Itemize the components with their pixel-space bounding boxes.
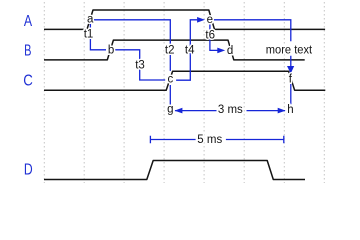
svg-text:B: B xyxy=(24,42,31,59)
gridline 8 xyxy=(323,2,325,183)
gridline 4 xyxy=(163,2,165,183)
svg-text:more text: more text xyxy=(266,45,313,57)
wire e right then down to f and h xyxy=(214,20,291,105)
3 ms measure line xyxy=(175,110,285,112)
svg-text:e: e xyxy=(207,14,213,26)
svg-text:a: a xyxy=(87,13,94,25)
signal A waveform xyxy=(44,10,325,29)
arrowhead into d xyxy=(217,48,225,54)
svg-text:c: c xyxy=(168,73,174,85)
gridline 6 xyxy=(243,2,245,183)
svg-text:t4: t4 xyxy=(185,44,195,56)
svg-text:h: h xyxy=(287,104,293,116)
5 ms measure line with end ticks xyxy=(150,136,283,143)
wire e down through t6 to d xyxy=(210,25,218,51)
svg-text:t1: t1 xyxy=(84,28,94,40)
svg-text:A: A xyxy=(24,13,32,30)
svg-text:C: C xyxy=(23,72,33,89)
wire b through t3 to c xyxy=(115,50,166,80)
signal D waveform xyxy=(44,161,305,180)
svg-text:t2: t2 xyxy=(165,44,175,56)
svg-text:D: D xyxy=(24,162,33,179)
arrowhead 3 ms left xyxy=(175,108,183,114)
arrowhead 3 ms right xyxy=(278,108,286,114)
svg-text:t3: t3 xyxy=(135,60,145,72)
svg-text:b: b xyxy=(108,44,114,56)
signal C waveform xyxy=(44,71,325,90)
gridline 1 xyxy=(43,2,45,183)
wire c down to g xyxy=(169,85,171,105)
gridline 5 xyxy=(203,2,205,183)
arrowhead into e xyxy=(197,17,205,23)
gridline 7 xyxy=(283,2,285,183)
svg-text:5 ms: 5 ms xyxy=(197,134,222,146)
svg-text:g: g xyxy=(167,104,173,116)
gridline 2 xyxy=(83,2,85,183)
svg-text:3 ms: 3 ms xyxy=(218,104,243,116)
gridline 3 xyxy=(123,2,125,183)
wire a to t2 vertical down to c xyxy=(94,20,171,71)
wire c through t4 up to e xyxy=(176,20,197,80)
svg-text:d: d xyxy=(227,45,233,57)
signal B waveform xyxy=(44,40,305,60)
svg-text:t6: t6 xyxy=(205,29,215,41)
wire a down through t1 to b xyxy=(90,24,106,50)
arrowhead down into f xyxy=(287,66,294,74)
